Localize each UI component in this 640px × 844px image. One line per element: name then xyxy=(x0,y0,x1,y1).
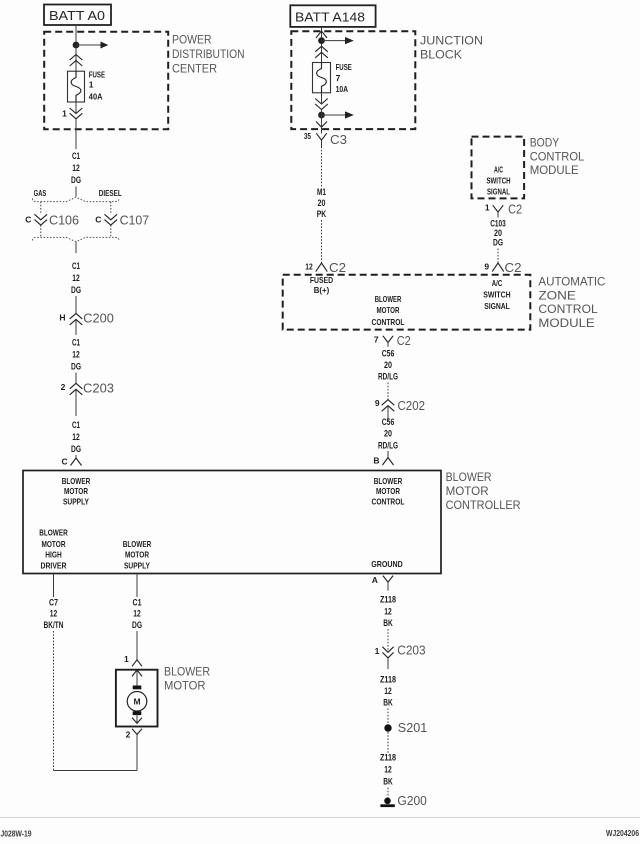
svg-text:C2: C2 xyxy=(329,260,346,275)
blower motor control pin label (AZC) xyxy=(372,294,405,327)
svg-text:C2: C2 xyxy=(508,201,522,216)
svg-text:FUSE: FUSE xyxy=(336,62,352,72)
svg-text:BLOWER: BLOWER xyxy=(123,539,152,549)
junction block label xyxy=(420,34,483,62)
wire blower motor high driver C7 12 BK/TN xyxy=(53,574,55,598)
svg-text:35: 35 xyxy=(304,131,311,141)
svg-text:C: C xyxy=(25,215,31,225)
connector C203 pin 1 (ground) xyxy=(375,643,426,669)
wire label C1 12 DG xyxy=(71,261,81,296)
svg-text:DG: DG xyxy=(493,238,503,249)
fused B(+) pin label xyxy=(310,275,333,295)
svg-text:DG: DG xyxy=(71,285,81,296)
automatic zone control module box xyxy=(283,275,531,330)
svg-text:DG: DG xyxy=(71,362,81,373)
connector C2 pin 1 (BCM) xyxy=(485,201,522,217)
svg-text:SUPPLY: SUPPLY xyxy=(63,497,89,507)
svg-text:20: 20 xyxy=(384,360,392,371)
svg-text:12: 12 xyxy=(50,609,58,620)
svg-text:C: C xyxy=(95,215,101,225)
svg-text:C2: C2 xyxy=(397,333,411,348)
wire Z118 12 BK xyxy=(380,753,396,788)
wire label C1 12 DG xyxy=(71,151,81,186)
svg-text:CENTER: CENTER xyxy=(172,62,217,76)
svg-text:1: 1 xyxy=(89,80,94,90)
blower motor pin 2 xyxy=(126,714,142,770)
blower motor controller label xyxy=(446,470,521,512)
svg-text:C2: C2 xyxy=(505,260,522,275)
blower motor pin 1 xyxy=(124,654,142,686)
svg-text:1: 1 xyxy=(62,108,67,118)
node: junction block lower bus with arrow xyxy=(318,111,354,118)
footnote separator xyxy=(0,817,640,819)
battery feed BATT A0 xyxy=(44,5,111,26)
battery feed BATT A148 xyxy=(290,5,375,27)
svg-text:H: H xyxy=(59,312,65,322)
svg-text:GAS: GAS xyxy=(34,188,47,198)
connector chevrons out of fuse 1 xyxy=(70,108,83,119)
blower motor armature M xyxy=(127,692,147,712)
svg-text:GROUND: GROUND xyxy=(371,559,403,569)
svg-text:12: 12 xyxy=(384,607,392,618)
wire C56 20 RD/LG xyxy=(378,417,398,451)
svg-text:MOTOR: MOTOR xyxy=(376,486,400,496)
wire fuse 1 output xyxy=(75,102,77,114)
svg-text:SIGNAL: SIGNAL xyxy=(484,301,510,311)
junction block box xyxy=(291,31,415,129)
svg-text:DG: DG xyxy=(71,175,81,186)
svg-text:MOTOR: MOTOR xyxy=(377,305,400,315)
svg-text:C56: C56 xyxy=(382,349,395,360)
connector chevrons out of fuse 7 xyxy=(315,99,328,110)
svg-text:12: 12 xyxy=(72,273,80,284)
fuse 1 value label xyxy=(89,70,105,102)
svg-text:7: 7 xyxy=(336,73,341,83)
svg-text:AUTOMATIC: AUTOMATIC xyxy=(538,275,605,289)
connector C107 (diesel) pin C xyxy=(105,214,118,225)
svg-text:BATT A0: BATT A0 xyxy=(49,9,105,23)
wire blower motor supply C1 12 DG xyxy=(136,574,138,598)
wire label C1 12 DG xyxy=(71,338,81,373)
svg-text:SIGNAL: SIGNAL xyxy=(487,188,510,197)
svg-text:FUSED: FUSED xyxy=(310,275,333,285)
svg-text:C7: C7 xyxy=(49,598,58,609)
svg-text:POWER: POWER xyxy=(172,33,212,47)
connector C203 pin 2 xyxy=(70,383,83,395)
svg-text:C1: C1 xyxy=(72,151,80,162)
svg-text:SUPPLY: SUPPLY xyxy=(124,561,150,571)
svg-text:RD/LG: RD/LG xyxy=(378,440,398,451)
splice S201 xyxy=(384,720,427,735)
svg-text:C1: C1 xyxy=(133,598,143,609)
blower motor label xyxy=(164,664,210,692)
svg-text:BLOWER: BLOWER xyxy=(164,664,210,678)
svg-text:BLOWER: BLOWER xyxy=(374,476,403,486)
svg-text:DIESEL: DIESEL xyxy=(99,188,122,198)
svg-text:MODULE: MODULE xyxy=(538,316,594,330)
connector C202 pin 9 xyxy=(375,398,425,413)
svg-text:BATT A148: BATT A148 xyxy=(295,11,365,25)
svg-text:B(+): B(+) xyxy=(314,285,330,295)
svg-text:CONTROL: CONTROL xyxy=(372,497,405,507)
svg-text:B: B xyxy=(373,455,379,465)
svg-text:CONTROL: CONTROL xyxy=(530,149,585,163)
svg-text:BODY: BODY xyxy=(530,136,560,150)
connector C200 pin H xyxy=(70,313,83,325)
svg-text:MOTOR: MOTOR xyxy=(64,486,88,496)
svg-text:BLOCK: BLOCK xyxy=(420,48,462,62)
svg-text:CONTROL: CONTROL xyxy=(538,302,598,316)
wire label C1 12 DG xyxy=(71,420,81,455)
svg-text:9: 9 xyxy=(375,398,380,408)
svg-text:SWITCH: SWITCH xyxy=(486,177,510,186)
svg-text:BK: BK xyxy=(383,618,393,629)
svg-text:1: 1 xyxy=(375,646,380,656)
svg-text:MOTOR: MOTOR xyxy=(164,678,206,692)
svg-text:7: 7 xyxy=(374,335,379,345)
svg-text:ZONE: ZONE xyxy=(538,289,576,303)
connector chevron at junction block feed xyxy=(316,31,327,38)
blower motor box xyxy=(116,670,158,727)
connector C3 pin 35 xyxy=(304,131,347,147)
svg-text:A/C: A/C xyxy=(492,278,503,288)
blower motor controller box xyxy=(23,471,441,574)
svg-text:Z118: Z118 xyxy=(380,595,396,606)
a/c switch signal pin label (AZC) xyxy=(483,278,510,311)
body control module label xyxy=(530,136,585,178)
svg-text:12: 12 xyxy=(72,163,80,174)
gas branch wire xyxy=(40,202,42,215)
blower motor brush (bottom) xyxy=(133,711,142,715)
svg-text:C202: C202 xyxy=(398,398,426,413)
svg-text:12: 12 xyxy=(384,686,392,697)
svg-text:J028W-19: J028W-19 xyxy=(1,829,32,839)
blower motor brush (top) xyxy=(133,686,142,690)
svg-text:2: 2 xyxy=(61,382,66,392)
chevron at junction block output xyxy=(316,122,327,128)
svg-text:DG: DG xyxy=(71,444,81,455)
wire Z118 12 BK xyxy=(380,595,396,630)
svg-text:CONTROL: CONTROL xyxy=(372,317,405,327)
svg-text:A/C: A/C xyxy=(494,166,503,175)
svg-text:SWITCH: SWITCH xyxy=(483,290,510,300)
wire M1 20 PK xyxy=(321,147,323,189)
wire blower motor return (bottom run) xyxy=(54,770,138,772)
connector C106 (gas) pin C xyxy=(35,214,48,225)
svg-text:C56: C56 xyxy=(382,417,395,428)
svg-text:1: 1 xyxy=(485,203,490,213)
svg-text:PK: PK xyxy=(317,209,327,220)
connector C2 pin 7 (AZC output) xyxy=(374,333,411,348)
svg-text:C1: C1 xyxy=(72,420,80,431)
power distribution center label xyxy=(172,33,245,76)
svg-text:DG: DG xyxy=(132,620,142,631)
svg-text:20: 20 xyxy=(384,429,392,440)
wire BATT A0 to fuse 1 xyxy=(75,25,77,71)
connector C2 pin 9 into AZC xyxy=(484,260,521,275)
svg-text:MOTOR: MOTOR xyxy=(42,539,66,549)
power distribution center box xyxy=(44,32,168,130)
svg-text:C: C xyxy=(62,457,68,467)
connector chevrons into fuse 7 xyxy=(315,46,328,58)
svg-text:FUSE: FUSE xyxy=(89,70,105,80)
pin B of blower motor controller xyxy=(383,458,394,466)
blower motor high driver pin label xyxy=(39,528,68,571)
automatic zone control module label xyxy=(538,275,605,330)
svg-text:BLOWER: BLOWER xyxy=(446,470,492,484)
svg-text:12: 12 xyxy=(72,350,80,361)
svg-text:BLOWER: BLOWER xyxy=(39,528,68,538)
connector C2 pin 12 into AZC xyxy=(305,260,346,275)
svg-text:C203: C203 xyxy=(83,381,114,396)
svg-text:C3: C3 xyxy=(330,132,347,147)
wire C1 to gas/diesel split xyxy=(75,187,77,197)
svg-text:DRIVER: DRIVER xyxy=(41,561,67,571)
diesel branch wire xyxy=(110,202,112,215)
svg-text:12: 12 xyxy=(72,432,80,443)
svg-text:BLOWER: BLOWER xyxy=(62,476,91,486)
svg-text:M1: M1 xyxy=(317,187,326,198)
fuse 1 40A xyxy=(68,71,85,102)
svg-text:MOTOR: MOTOR xyxy=(125,550,149,560)
svg-text:20: 20 xyxy=(318,198,326,209)
body control module box xyxy=(472,137,525,199)
svg-text:MOTOR: MOTOR xyxy=(446,484,489,498)
svg-text:BLOWER: BLOWER xyxy=(375,294,402,304)
node: junction block bus with arrow xyxy=(318,37,354,44)
svg-text:M: M xyxy=(133,696,140,706)
fuse 7 value label xyxy=(336,62,352,94)
svg-text:S201: S201 xyxy=(398,720,428,735)
svg-text:C1: C1 xyxy=(72,261,80,272)
wire BATT A148 into junction block xyxy=(321,27,323,63)
pin C of blower motor controller xyxy=(71,458,82,466)
svg-text:12: 12 xyxy=(305,261,313,271)
svg-text:10A: 10A xyxy=(336,84,349,94)
svg-text:Z118: Z118 xyxy=(380,753,396,764)
svg-text:12: 12 xyxy=(384,765,392,776)
svg-text:G200: G200 xyxy=(397,793,427,808)
svg-text:12: 12 xyxy=(133,609,141,620)
blower motor supply pin label (top left) xyxy=(62,476,91,507)
svg-text:9: 9 xyxy=(484,261,489,271)
ground G200 xyxy=(380,793,427,808)
gas/diesel merge brace xyxy=(33,237,120,241)
svg-text:C200: C200 xyxy=(83,310,114,325)
svg-text:2: 2 xyxy=(126,729,131,739)
blower motor supply pin label (bottom) xyxy=(123,539,152,571)
pin A ground of blower motor controller xyxy=(372,575,393,590)
svg-text:C107: C107 xyxy=(120,213,150,228)
svg-text:C106: C106 xyxy=(49,213,79,228)
svg-text:Z118: Z118 xyxy=(380,675,396,686)
svg-text:C203: C203 xyxy=(397,643,425,658)
svg-text:1: 1 xyxy=(124,654,129,664)
svg-text:BK: BK xyxy=(383,698,393,709)
node: PDC bus junction with arrow xyxy=(73,42,109,49)
svg-text:BK: BK xyxy=(383,777,393,788)
wire C103 20 DG xyxy=(490,218,506,248)
svg-text:DISTRIBUTION: DISTRIBUTION xyxy=(172,47,245,61)
blower motor control pin label (top right) xyxy=(372,476,405,507)
svg-text:CONTROLLER: CONTROLLER xyxy=(446,498,521,512)
svg-text:RD/LG: RD/LG xyxy=(378,372,398,383)
wire merge to C200 xyxy=(75,242,77,253)
svg-text:HIGH: HIGH xyxy=(45,550,62,560)
gas/diesel option split brace xyxy=(33,197,120,201)
svg-text:40A: 40A xyxy=(89,92,103,102)
wire C56 20 RD/LG xyxy=(378,349,398,383)
svg-text:C1: C1 xyxy=(72,338,80,349)
svg-text:A: A xyxy=(372,575,378,585)
svg-text:JUNCTION: JUNCTION xyxy=(420,34,483,48)
fuse 7 10A xyxy=(313,63,331,93)
svg-text:WJ204206: WJ204206 xyxy=(606,828,639,838)
a/c switch signal pin label (BCM) xyxy=(486,166,510,197)
connector chevrons into fuse 1 xyxy=(70,55,83,67)
wire Z118 12 BK xyxy=(380,675,396,709)
svg-text:MODULE: MODULE xyxy=(530,163,579,177)
svg-text:BK/TN: BK/TN xyxy=(44,620,64,631)
